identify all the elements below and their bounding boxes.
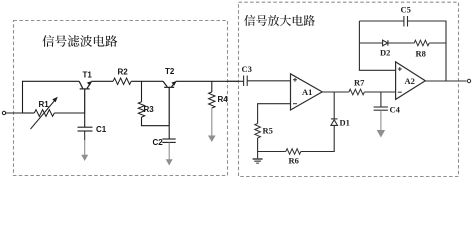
svg-text:C5: C5 bbox=[401, 5, 411, 15]
svg-text:R8: R8 bbox=[416, 49, 426, 59]
wire R3 bottom to node D below T2 bbox=[142, 117, 170, 126]
wire T1 collector to R2 bbox=[91, 80, 113, 82]
capacitor C5 bbox=[404, 16, 408, 27]
wire node E down to R4 bbox=[211, 81, 213, 92]
svg-text:A1: A1 bbox=[302, 87, 312, 97]
wire C3 to A1 plus input bbox=[247, 80, 290, 82]
svg-text:C4: C4 bbox=[390, 105, 401, 115]
transistor T1 bbox=[79, 81, 92, 113]
resistor R1 (variable) bbox=[31, 97, 58, 129]
op-amp A1 bbox=[291, 74, 323, 110]
svg-text:R1: R1 bbox=[39, 100, 50, 109]
output terminal bbox=[467, 79, 470, 82]
svg-text:R5: R5 bbox=[263, 126, 273, 136]
op-amp A2 bbox=[396, 62, 426, 100]
capacitor C2 bbox=[162, 139, 175, 142]
wire D2 to R8 bbox=[388, 42, 414, 44]
wire T2 collector to box edge bbox=[176, 80, 239, 82]
resistor R2 bbox=[113, 78, 131, 84]
svg-text:C2: C2 bbox=[153, 138, 164, 147]
svg-text:D1: D1 bbox=[340, 118, 350, 128]
wire R6 to D1 leg bbox=[301, 125, 334, 151]
wire D1 up to output node of A1 bbox=[333, 92, 335, 119]
svg-text:R2: R2 bbox=[118, 68, 129, 77]
wire feedback node down to A2 plus input bbox=[359, 21, 395, 70]
svg-text:C1: C1 bbox=[96, 125, 107, 134]
wire A1 output to R7 bbox=[322, 91, 349, 93]
resistor R3 bbox=[138, 102, 144, 117]
svg-text:T1: T1 bbox=[83, 71, 93, 80]
wire T2 base node down to C2 bbox=[168, 126, 170, 139]
transistor T2 bbox=[163, 81, 176, 126]
capacitor C3 bbox=[244, 76, 248, 87]
amplifier-stage dashed enclosure box bbox=[239, 2, 459, 176]
resistor R6 bbox=[286, 149, 301, 155]
ground symbol at R5/R6 node bbox=[253, 159, 263, 163]
wire R5 node up to A1 minus input bbox=[258, 104, 291, 124]
svg-text:T2: T2 bbox=[165, 67, 175, 76]
capacitor C4 bbox=[374, 92, 388, 110]
resistor R8 bbox=[414, 40, 429, 46]
ground below C4 bbox=[377, 110, 385, 137]
capacitor C1 bbox=[78, 113, 93, 140]
ground below C1 bbox=[81, 140, 88, 161]
ground below C2 bbox=[166, 142, 173, 165]
diode D2 bbox=[383, 40, 388, 46]
title label: signal filter circuit bbox=[42, 35, 117, 47]
wire node C down to R3 bbox=[141, 81, 143, 102]
wire R7 to A2 minus input through node F bbox=[364, 91, 395, 93]
ground below R4 bbox=[208, 108, 216, 142]
svg-text:A2: A2 bbox=[405, 76, 415, 86]
wire R1 to node B bbox=[54, 112, 85, 114]
diode D1 bbox=[331, 119, 338, 126]
svg-text:R7: R7 bbox=[354, 78, 365, 88]
wire R8 to right rail bbox=[429, 42, 446, 44]
wire node A to R1 bbox=[23, 112, 35, 114]
wire D2 branch from left rail bbox=[359, 42, 382, 44]
svg-text:R4: R4 bbox=[218, 95, 229, 104]
wire A2 output to output terminal bbox=[425, 80, 466, 82]
wire input terminal to node A bbox=[6, 112, 23, 114]
wire top feedback rail to C5 bbox=[359, 20, 404, 22]
svg-text:R3: R3 bbox=[144, 105, 155, 114]
wire node A up and right to T1 emitter bbox=[23, 81, 80, 113]
resistor R5 bbox=[255, 124, 261, 138]
filter-stage dashed enclosure box bbox=[14, 21, 228, 176]
svg-text:C3: C3 bbox=[242, 64, 252, 74]
wire ground node to R6 bbox=[258, 151, 286, 153]
wire R2 to T2 emitter with node C bbox=[131, 80, 163, 82]
resistor R4 bbox=[209, 92, 215, 108]
wire R5 to ground node bbox=[257, 138, 259, 159]
wire into C3 from filter stage bbox=[228, 80, 244, 82]
svg-text:D2: D2 bbox=[380, 48, 390, 58]
title label: signal amplifier circuit bbox=[244, 15, 315, 26]
svg-text:R6: R6 bbox=[289, 156, 299, 166]
resistor R7 bbox=[349, 89, 365, 95]
wire C5 to right feedback rail bbox=[408, 21, 447, 81]
input terminal bbox=[2, 111, 5, 114]
